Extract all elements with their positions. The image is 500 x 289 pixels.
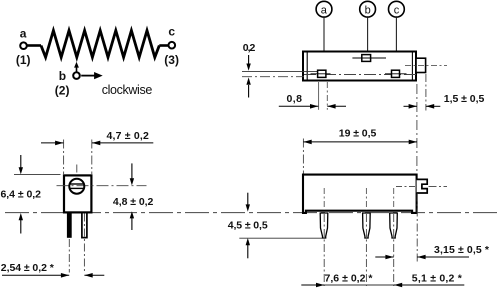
leader a [323,17,325,70]
terminal pad b [362,55,371,62]
svg-text:a: a [20,27,27,41]
front view center line vertical [76,165,78,213]
center line through body [304,74,416,76]
wiper b circle [73,72,80,79]
resistor zigzag [41,31,159,58]
svg-text:7,6 ± 0,2 *: 7,6 ± 0,2 * [325,273,374,285]
balloon b [360,1,376,17]
pin 2 [363,213,371,238]
pin center lines [323,214,325,286]
4,7 dimension line [41,142,63,144]
wire resistor to c [159,44,168,47]
7,6 / 5,1 dimension line [301,284,324,286]
4,5 dimension [247,193,249,205]
leg center dash lines [68,239,70,273]
3,15 dimension [375,256,393,258]
pin tip reference line [239,237,322,239]
balloon a [316,1,332,17]
terminal a circle [20,42,27,49]
svg-text:(2): (2) [55,83,70,97]
svg-text:(1): (1) [16,53,31,67]
svg-text:c: c [168,25,175,39]
0,2 reference line upper [242,70,318,72]
svg-text:6,4 ± 0,2: 6,4 ± 0,2 [1,189,42,201]
hidden pin lines inside body [323,188,325,210]
screw slot [70,183,85,185]
wire a to resistor [27,44,41,47]
6,4 dimension [14,174,61,176]
1,5 extension lines [416,84,418,173]
terminal c circle [169,42,176,49]
screw axis dash line [405,64,447,66]
clockwise arrow [81,75,94,77]
4,8 dimension [131,163,133,179]
terminal pad a [318,70,326,77]
screw boss (top view) [416,58,426,72]
long horizontal center line (seating plane) [5,212,498,214]
body end cap left [306,52,308,81]
pin 1 [320,213,328,238]
4,7 extension lines [63,140,65,175]
terminal pad c [392,70,400,77]
svg-text:4,8 ± 0,2: 4,8 ± 0,2 [113,196,154,208]
svg-text:0,2: 0,2 [243,42,256,54]
side view body [303,175,417,213]
screw axis hidden line [396,186,416,188]
0,2 dimension arrows [248,55,250,64]
svg-text:c: c [394,5,400,17]
svg-text:0,8: 0,8 [287,93,303,105]
svg-text:19 ± 0,5: 19 ± 0,5 [339,128,377,140]
front view body [64,175,91,212]
svg-text:1,5 ± 0,5: 1,5 ± 0,5 [444,93,485,105]
body end cap right [411,52,413,81]
wiper up arrow [76,67,78,72]
19 extension line left [302,139,304,174]
pin 3 [390,213,398,238]
svg-text:4,5 ± 0,5: 4,5 ± 0,5 [228,220,268,232]
svg-text:4,7 ± 0,2: 4,7 ± 0,2 [107,130,149,142]
top view body [303,52,416,81]
0,8 extension lines [318,82,320,110]
front leg left (solid) [67,213,72,238]
screw head circle [69,179,84,194]
0,2 reference line lower / center line [242,76,304,78]
balloon c [389,1,405,17]
svg-text:(3): (3) [164,53,179,67]
svg-text:3,15 ± 0,5 *: 3,15 ± 0,5 * [434,244,490,256]
screw slot center line horizontal [57,185,147,187]
svg-text:a: a [321,5,328,17]
svg-text:5,1 ± 0,2 *: 5,1 ± 0,2 * [412,273,463,285]
svg-text:clockwise: clockwise [102,83,153,97]
svg-text:b: b [59,69,66,83]
svg-text:2,54 ± 0,2 *: 2,54 ± 0,2 * [1,262,55,274]
leader c [395,17,397,70]
19 dimension line [303,141,417,143]
1,5 dimension line [404,105,417,107]
screw (side view) [417,179,428,193]
leader b [367,17,369,54]
svg-text:b: b [365,5,371,17]
front leg right [82,213,87,238]
body edge extension line below screw [416,194,418,263]
0,8 dimension line [279,105,319,107]
